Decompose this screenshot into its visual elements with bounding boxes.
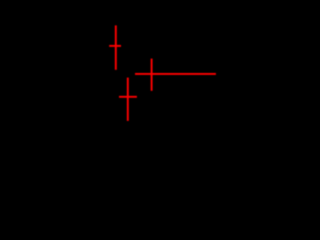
candle 1 wick <box>115 25 117 69</box>
candle 3 open/close bar <box>119 96 137 98</box>
candle 2 open/close bar (long) <box>135 73 216 75</box>
candle 1 open/close bar <box>109 45 121 47</box>
candle 3 wick <box>127 78 129 121</box>
candle 2 wick <box>151 59 153 91</box>
